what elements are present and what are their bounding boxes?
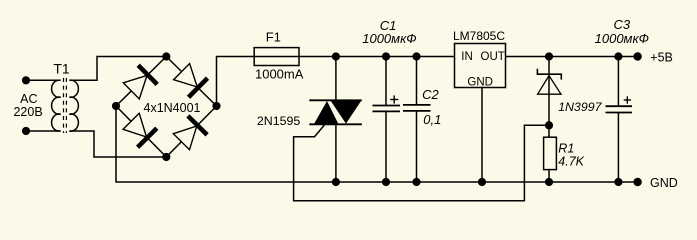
svg-text:C2: C2 <box>422 87 439 102</box>
wire bridge diagonal top-right <box>166 57 216 107</box>
wire top rail through fuse to regulator <box>254 56 454 58</box>
node +5V output terminal <box>633 52 641 60</box>
svg-text:220В: 220В <box>13 105 42 119</box>
zener diode VD1 cathode bar with hooks <box>537 69 561 80</box>
wire thyristor gate <box>294 125 549 201</box>
svg-text:OUT: OUT <box>481 51 505 63</box>
wire primary top lead <box>26 79 61 81</box>
svg-text:R1: R1 <box>558 141 574 155</box>
node C2 bottom junction <box>412 178 420 186</box>
node AC input bottom terminal <box>22 127 30 135</box>
transformer T1 core <box>64 78 67 133</box>
wire secondary top to bridge top node <box>69 57 166 81</box>
diode D2 bridge top-right triangle <box>174 64 198 88</box>
capacitor C1 plus sign <box>390 95 398 103</box>
wire capacitor C2 top <box>416 57 418 105</box>
node bridge bottom <box>162 153 170 161</box>
diode D2 cathode bar <box>189 78 208 97</box>
node thyristor anode junction <box>332 52 340 60</box>
node C3 top junction <box>614 52 622 60</box>
thyristor 2N1595 bottom bar <box>309 123 362 125</box>
wire capacitor C2 bottom <box>416 111 418 182</box>
svg-text:1000мкФ: 1000мкФ <box>595 31 649 46</box>
resistor R1 body <box>544 137 557 169</box>
node zener R1 gate junction <box>545 121 553 129</box>
capacitor C2 plates <box>403 105 431 111</box>
svg-text:1000мкФ: 1000мкФ <box>362 31 416 46</box>
node GND output terminal <box>633 178 641 186</box>
wire regulator GND pin <box>481 88 483 183</box>
regulator U1 LM7805C body <box>455 44 506 88</box>
diode D1 cathode bar <box>138 65 157 84</box>
wire bridge diagonal left-top <box>116 57 166 107</box>
wire primary bottom lead <box>26 130 61 132</box>
wire R1 bottom lead <box>548 170 550 182</box>
node bridge top <box>162 52 170 60</box>
fuse F1 body <box>254 48 299 66</box>
wire capacitor C1 bottom <box>385 111 387 182</box>
wire bridge diagonal left-bottom <box>116 106 166 157</box>
wire zener branch <box>548 57 550 126</box>
svg-text:IN: IN <box>461 51 473 63</box>
node C1 top junction <box>382 52 390 60</box>
diode D3 cathode bar <box>138 128 157 147</box>
node zener top junction <box>545 52 553 60</box>
svg-text:4.7K: 4.7K <box>558 154 584 168</box>
svg-text:1N3997: 1N3997 <box>558 100 603 114</box>
node bridge right <box>212 102 220 110</box>
svg-text:T1: T1 <box>53 61 70 77</box>
wire regulator output rail to +5V terminal <box>506 56 638 58</box>
svg-text:4x1N4001: 4x1N4001 <box>144 101 201 115</box>
wire capacitor C3 top <box>617 57 619 107</box>
node bridge left <box>112 102 120 110</box>
zener diode VD1 triangle <box>538 76 561 95</box>
diode D1 bridge left-top triangle <box>123 76 147 100</box>
capacitor C3 plus sign <box>624 96 631 103</box>
svg-text:+5В: +5В <box>650 50 673 64</box>
diode D3 bridge left-bottom triangle <box>123 113 147 137</box>
svg-text:1000mA: 1000mA <box>255 67 304 82</box>
thyristor 2N1595 right triangle <box>331 101 361 124</box>
svg-text:C3: C3 <box>613 17 630 32</box>
svg-text:AC: AC <box>20 92 37 106</box>
node C3 bottom junction <box>614 178 622 186</box>
wire thyristor anode <box>335 57 337 101</box>
wire capacitor C3 bottom <box>617 113 619 183</box>
wire thyristor cathode <box>335 124 337 182</box>
svg-text:0,1: 0,1 <box>423 112 441 127</box>
svg-text:F1: F1 <box>266 30 281 45</box>
node regulator GND junction <box>478 178 486 186</box>
wire bridge diagonal bottom-right <box>166 106 216 157</box>
capacitor C3 plates <box>606 106 633 112</box>
node R1 bottom junction <box>545 178 553 186</box>
svg-text:GND: GND <box>650 176 678 190</box>
node C2 top junction <box>412 52 420 60</box>
transformer T1 secondary winding <box>69 80 78 131</box>
svg-text:LM7805C: LM7805C <box>453 29 505 43</box>
svg-text:GND: GND <box>467 76 493 88</box>
svg-text:2N1595: 2N1595 <box>257 114 301 128</box>
wire bridge negative to ground rail <box>116 106 638 182</box>
wire R1 top lead <box>548 125 550 137</box>
node C1 bottom junction <box>382 178 390 186</box>
diode D4 bridge bottom-right triangle <box>173 126 197 150</box>
wire bridge positive up to fuse <box>217 57 255 107</box>
thyristor 2N1595 left triangle <box>314 101 338 124</box>
wire secondary bottom to bridge bottom node <box>69 131 166 157</box>
node thyristor cathode junction <box>332 178 340 186</box>
diode D4 cathode bar <box>188 116 207 135</box>
wire capacitor C1 top <box>385 57 387 106</box>
node AC input top terminal <box>22 76 30 84</box>
thyristor 2N1595 top bar <box>309 99 362 101</box>
capacitor C1 plates <box>373 106 401 112</box>
transformer T1 primary winding <box>52 80 61 131</box>
